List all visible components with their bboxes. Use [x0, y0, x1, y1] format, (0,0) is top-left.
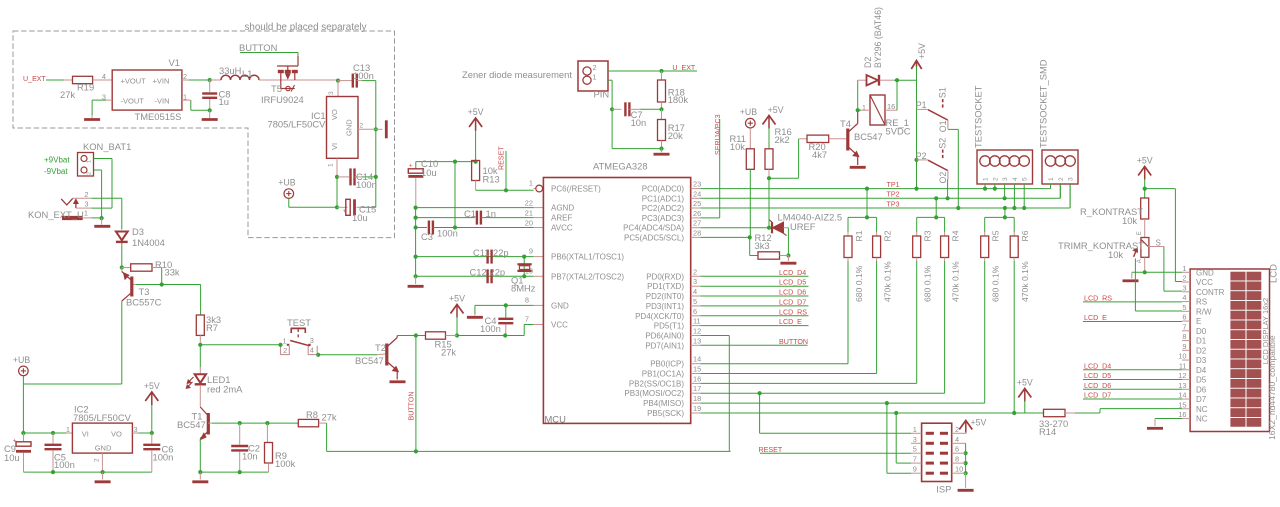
svg-text:16: 16	[887, 102, 895, 111]
svg-text:4k7: 4k7	[812, 149, 827, 160]
svg-text:PC3(ADC3): PC3(ADC3)	[642, 214, 685, 223]
svg-text:PD5(T1): PD5(T1)	[654, 322, 685, 331]
svg-text:470k 0.1%: 470k 0.1%	[951, 261, 961, 302]
svg-text:1: 1	[1048, 177, 1055, 181]
svg-text:R5: R5	[991, 230, 1001, 241]
svg-text:S2: S2	[937, 138, 947, 149]
svg-text:PB0(ICP): PB0(ICP)	[650, 360, 684, 369]
svg-text:PC0(ADC0): PC0(ADC0)	[642, 185, 685, 194]
svg-text:22: 22	[525, 199, 533, 208]
svg-text:D3: D3	[132, 226, 144, 237]
svg-text:BUTTON: BUTTON	[239, 42, 277, 53]
svg-text:R19: R19	[77, 82, 94, 93]
svg-text:V1: V1	[169, 57, 180, 68]
svg-text:27k: 27k	[60, 89, 75, 100]
svg-text:470k 0.1%: 470k 0.1%	[1020, 261, 1030, 302]
svg-text:5: 5	[1182, 303, 1186, 312]
svg-text:12: 12	[1178, 371, 1186, 380]
svg-text:S1: S1	[937, 87, 947, 98]
svg-text:15: 15	[693, 365, 701, 374]
svg-text:21: 21	[525, 209, 533, 218]
svg-text:C3: C3	[421, 231, 433, 242]
svg-text:VI: VI	[82, 430, 89, 439]
svg-text:LCD_D5: LCD_D5	[779, 279, 806, 287]
svg-text:2k2: 2k2	[775, 134, 790, 145]
svg-text:TP2: TP2	[887, 191, 900, 199]
svg-text:3k3: 3k3	[755, 240, 770, 251]
svg-text:Zener diode measurement: Zener diode measurement	[462, 69, 572, 80]
svg-text:8: 8	[525, 296, 529, 305]
svg-text:R13: R13	[483, 174, 500, 185]
svg-text:13: 13	[1178, 381, 1186, 390]
svg-text:3: 3	[328, 91, 335, 95]
svg-text:2: 2	[360, 123, 364, 130]
svg-text:R7: R7	[206, 322, 218, 333]
svg-text:3: 3	[1002, 177, 1009, 181]
svg-text:2: 2	[94, 458, 101, 462]
svg-text:10k: 10k	[1108, 249, 1123, 260]
svg-text:4: 4	[1012, 177, 1019, 181]
svg-text:ISP: ISP	[936, 484, 951, 495]
svg-text:TESTSOCKET: TESTSOCKET	[973, 85, 984, 148]
svg-text:6: 6	[955, 445, 959, 454]
svg-text:33k: 33k	[165, 267, 180, 278]
svg-text:11: 11	[693, 317, 701, 326]
svg-text:R1: R1	[854, 230, 864, 241]
svg-text:T4: T4	[840, 118, 851, 129]
svg-text:PB7(XTAL2/TOSC2): PB7(XTAL2/TOSC2)	[551, 272, 624, 281]
svg-text:RESET: RESET	[498, 146, 506, 170]
svg-text:U_EXT: U_EXT	[672, 64, 696, 72]
svg-text:RS: RS	[1196, 298, 1207, 307]
svg-text:+VIN: +VIN	[153, 77, 170, 86]
svg-text:IRFU9024: IRFU9024	[261, 94, 304, 105]
svg-text:5: 5	[913, 445, 917, 454]
svg-text:PC1(ADC1): PC1(ADC1)	[642, 194, 685, 203]
svg-text:100n: 100n	[480, 323, 501, 334]
svg-text:20: 20	[525, 219, 533, 228]
svg-text:22p: 22p	[490, 267, 506, 278]
svg-text:LCD_E: LCD_E	[1084, 314, 1107, 322]
svg-text:12: 12	[693, 327, 701, 336]
svg-text:LCD_D7: LCD_D7	[779, 298, 806, 306]
svg-text:17: 17	[693, 384, 701, 393]
svg-text:2: 2	[693, 267, 697, 276]
svg-text:1: 1	[1182, 264, 1186, 273]
svg-text:4: 4	[1182, 293, 1186, 302]
svg-text:BC547: BC547	[355, 355, 384, 366]
svg-text:+UB: +UB	[740, 107, 757, 117]
svg-text:BC547: BC547	[177, 419, 206, 430]
svg-text:100n: 100n	[437, 228, 458, 239]
svg-text:AGND: AGND	[551, 204, 574, 213]
svg-text:680 0.1%: 680 0.1%	[991, 265, 1001, 302]
svg-text:PD0(RXD): PD0(RXD)	[646, 272, 684, 281]
svg-text:470k 0.1%: 470k 0.1%	[883, 261, 893, 302]
svg-text:14: 14	[693, 355, 701, 364]
svg-text:28: 28	[693, 228, 701, 237]
svg-text:LCD_RS: LCD_RS	[779, 308, 807, 316]
svg-text:R/W: R/W	[1196, 307, 1212, 316]
svg-text:TP3: TP3	[887, 200, 900, 208]
svg-text:LCD_E: LCD_E	[779, 318, 802, 326]
svg-text:27: 27	[693, 219, 701, 228]
svg-text:LCD_D4: LCD_D4	[779, 269, 806, 277]
svg-text:+: +	[343, 209, 347, 215]
svg-text:C11: C11	[473, 247, 490, 258]
svg-text:+5V: +5V	[917, 43, 927, 59]
svg-text:10n: 10n	[242, 451, 258, 462]
svg-text:UREF: UREF	[790, 221, 816, 232]
svg-text:4: 4	[310, 346, 314, 355]
svg-text:2: 2	[1182, 274, 1186, 283]
svg-text:T5: T5	[271, 83, 282, 94]
svg-text:7: 7	[525, 315, 529, 324]
svg-text:PD4(XCK/T0): PD4(XCK/T0)	[635, 312, 684, 321]
svg-text:PC6(/RESET): PC6(/RESET)	[551, 185, 601, 194]
svg-text:2: 2	[593, 63, 597, 72]
svg-text:16X2_hd44780_compatible: 16X2_hd44780_compatible	[1267, 335, 1277, 440]
svg-text:6: 6	[693, 307, 697, 316]
svg-text:+5V: +5V	[144, 381, 160, 391]
svg-text:D7: D7	[1196, 395, 1207, 404]
svg-text:180k: 180k	[668, 94, 689, 105]
svg-text:16: 16	[693, 374, 701, 383]
svg-text:PB5(SCK): PB5(SCK)	[647, 409, 684, 418]
svg-text:9: 9	[1182, 342, 1186, 351]
svg-text:R4: R4	[951, 230, 961, 241]
svg-text:R2: R2	[883, 230, 893, 241]
svg-text:1: 1	[282, 337, 286, 346]
svg-text:+5V: +5V	[768, 105, 784, 115]
svg-text:AVCC: AVCC	[551, 224, 573, 233]
svg-text:TRIMR_KONTRAST: TRIMR_KONTRAST	[1058, 240, 1144, 251]
svg-text:9: 9	[529, 247, 533, 256]
svg-text:PD3(INT1): PD3(INT1)	[646, 302, 685, 311]
svg-text:19: 19	[693, 404, 701, 413]
svg-text:2: 2	[992, 177, 999, 181]
svg-text:1: 1	[66, 425, 70, 434]
svg-text:1u: 1u	[219, 96, 229, 107]
svg-text:LCD_D4: LCD_D4	[1084, 362, 1111, 370]
svg-text:R6: R6	[1020, 230, 1030, 241]
svg-text:KON_BAT1: KON_BAT1	[83, 141, 131, 152]
svg-text:TESTSOCKET_SMD: TESTSOCKET_SMD	[1038, 59, 1049, 148]
svg-text:CONTR: CONTR	[1196, 288, 1225, 297]
svg-text:P1: P1	[916, 100, 927, 110]
svg-text:+5V: +5V	[971, 418, 987, 428]
svg-text:100k: 100k	[275, 458, 296, 469]
svg-text:100n: 100n	[153, 452, 174, 463]
svg-text:VCC: VCC	[551, 321, 568, 330]
svg-text:D3: D3	[1196, 356, 1207, 365]
svg-text:T3: T3	[139, 286, 150, 297]
svg-text:2: 2	[84, 190, 88, 199]
svg-text:9: 9	[913, 465, 917, 474]
svg-text:VO: VO	[330, 109, 339, 120]
svg-text:27k: 27k	[322, 412, 337, 423]
svg-text:red 2mA: red 2mA	[207, 384, 243, 395]
svg-text:10: 10	[1178, 352, 1186, 361]
svg-text:20k: 20k	[668, 130, 683, 141]
svg-text:2: 2	[283, 346, 287, 355]
svg-text:10k: 10k	[730, 141, 745, 152]
svg-text:-VOUT: -VOUT	[121, 97, 145, 106]
svg-text:10u: 10u	[352, 212, 368, 223]
svg-text:-VIN: -VIN	[155, 97, 170, 106]
svg-text:VCC: VCC	[1196, 278, 1213, 287]
svg-text:PD7(AIN1): PD7(AIN1)	[645, 341, 684, 350]
svg-text:+5V: +5V	[1017, 378, 1033, 388]
svg-text:PD6(AIN0): PD6(AIN0)	[645, 332, 684, 341]
svg-text:PB6(XTAL1/TOSC1): PB6(XTAL1/TOSC1)	[551, 253, 624, 262]
svg-text:GND: GND	[551, 301, 569, 310]
svg-text:GND: GND	[345, 119, 354, 136]
svg-text:2: 2	[955, 425, 959, 434]
svg-text:D6: D6	[1196, 385, 1207, 394]
svg-text:D1: D1	[1196, 337, 1207, 346]
svg-text:GND: GND	[1196, 268, 1214, 277]
svg-text:680 0.1%: 680 0.1%	[854, 265, 864, 302]
svg-text:1: 1	[983, 177, 990, 181]
svg-text:2: 2	[1058, 177, 1065, 181]
svg-text:T2: T2	[375, 342, 386, 353]
svg-text:PIN: PIN	[594, 89, 610, 100]
svg-text:BY296 (BAT46): BY296 (BAT46)	[873, 7, 883, 68]
svg-text:-9Vbat: -9Vbat	[44, 167, 68, 176]
svg-text:100n: 100n	[353, 70, 374, 81]
svg-text:L1: L1	[242, 68, 252, 79]
svg-text:D0: D0	[1196, 327, 1207, 336]
svg-text:10u: 10u	[421, 167, 437, 178]
svg-text:22p: 22p	[493, 247, 509, 258]
svg-text:33uH: 33uH	[219, 65, 241, 76]
svg-text:GND: GND	[95, 444, 112, 453]
svg-text:3: 3	[913, 435, 917, 444]
svg-text:NC: NC	[1196, 405, 1208, 414]
svg-text:+UB: +UB	[278, 178, 295, 188]
svg-text:TP1: TP1	[887, 181, 900, 189]
svg-text:1: 1	[913, 425, 917, 434]
svg-text:8: 8	[1182, 332, 1186, 341]
svg-text:E: E	[1196, 317, 1201, 326]
svg-text:PB4(MISO): PB4(MISO)	[643, 399, 684, 408]
svg-text:KON_EXT_U: KON_EXT_U	[28, 209, 84, 220]
svg-text:BC547: BC547	[854, 131, 883, 142]
svg-text:+VOUT: +VOUT	[121, 77, 147, 86]
svg-text:D2: D2	[1196, 346, 1207, 355]
svg-text:should be placed separately: should be placed separately	[244, 22, 366, 33]
svg-text:2: 2	[87, 172, 93, 175]
svg-text:AREF: AREF	[551, 214, 572, 223]
svg-text:LCD_D5: LCD_D5	[1084, 372, 1111, 380]
svg-text:R3: R3	[923, 230, 933, 241]
svg-text:D2: D2	[863, 57, 873, 68]
svg-text:3: 3	[310, 336, 314, 345]
svg-text:7805/LF50CV: 7805/LF50CV	[268, 119, 327, 130]
svg-text:PB3(MOSI/OC2): PB3(MOSI/OC2)	[624, 389, 684, 398]
svg-text:6: 6	[1182, 313, 1186, 322]
svg-text:SERIJA/PC3: SERIJA/PC3	[714, 114, 722, 155]
svg-text:8MHz: 8MHz	[511, 283, 536, 294]
svg-text:D5: D5	[1196, 376, 1207, 385]
svg-text:15: 15	[1178, 400, 1186, 409]
svg-text:680 0.1%: 680 0.1%	[923, 265, 933, 302]
svg-text:BC557C: BC557C	[126, 297, 162, 308]
svg-text:U_EXT: U_EXT	[23, 75, 47, 83]
svg-text:BUTTON: BUTTON	[408, 391, 416, 420]
svg-text:+5V: +5V	[449, 294, 465, 304]
svg-text:100n: 100n	[356, 179, 377, 190]
svg-text:5: 5	[693, 297, 697, 306]
svg-text:VI: VI	[330, 143, 339, 150]
svg-text:1: 1	[84, 208, 88, 217]
svg-text:1N4004: 1N4004	[132, 237, 165, 248]
svg-text:1n: 1n	[486, 208, 496, 219]
svg-text:PC2(ADC2): PC2(ADC2)	[642, 204, 685, 213]
svg-text:13: 13	[693, 336, 701, 345]
svg-text:1: 1	[87, 160, 93, 163]
svg-text:3: 3	[1068, 177, 1075, 181]
svg-text:PC4(ADC4/SDA): PC4(ADC4/SDA)	[623, 224, 684, 233]
svg-text:O2: O2	[938, 172, 948, 184]
svg-text:23: 23	[693, 180, 701, 189]
svg-text:+9Vbat: +9Vbat	[44, 156, 70, 165]
svg-text:10: 10	[955, 465, 963, 474]
svg-text:7805/LF50CV: 7805/LF50CV	[73, 412, 132, 423]
svg-text:4: 4	[693, 287, 697, 296]
svg-text:MCU: MCU	[545, 414, 567, 425]
svg-text:10n: 10n	[631, 117, 647, 128]
svg-text:100n: 100n	[54, 459, 75, 470]
svg-text:C1: C1	[464, 208, 476, 219]
svg-text:+: +	[409, 164, 413, 170]
svg-text:4: 4	[102, 72, 106, 81]
svg-text:ATMEGA328: ATMEGA328	[593, 161, 648, 172]
svg-text:14: 14	[1178, 391, 1186, 400]
svg-text:TME0515S: TME0515S	[135, 111, 182, 122]
svg-text:A: A	[1137, 259, 1143, 263]
svg-text:PD1(TXD): PD1(TXD)	[647, 282, 684, 291]
svg-text:7: 7	[913, 455, 917, 464]
svg-text:3: 3	[693, 277, 697, 286]
svg-text:LCD_D6: LCD_D6	[779, 289, 806, 297]
svg-text:10u: 10u	[4, 452, 20, 463]
svg-text:10k: 10k	[1122, 215, 1137, 226]
svg-text:LCD: LCD	[1269, 264, 1280, 283]
svg-text:PC5(ADC5/SCL): PC5(ADC5/SCL)	[624, 233, 684, 242]
svg-text:7: 7	[1182, 322, 1186, 331]
svg-text:O1: O1	[938, 120, 948, 132]
svg-text:27k: 27k	[441, 347, 456, 358]
svg-text:C12: C12	[470, 267, 487, 278]
svg-text:16: 16	[1178, 410, 1186, 419]
svg-text:11: 11	[1179, 361, 1187, 370]
svg-text:5: 5	[1022, 177, 1029, 181]
svg-text:D4: D4	[1196, 366, 1207, 375]
svg-text:1: 1	[593, 73, 597, 82]
svg-text:TEST: TEST	[287, 317, 311, 328]
svg-text:1: 1	[529, 179, 533, 188]
svg-text:PB1(OC1A): PB1(OC1A)	[642, 370, 685, 379]
svg-text:4: 4	[955, 435, 959, 444]
svg-text:NC: NC	[1196, 415, 1208, 424]
svg-text:25: 25	[693, 199, 701, 208]
svg-text:E: E	[1137, 231, 1143, 235]
svg-text:VO: VO	[111, 430, 122, 439]
svg-text:3: 3	[84, 200, 88, 209]
svg-text:PB2(SS/OC1B): PB2(SS/OC1B)	[629, 379, 684, 388]
svg-text:BUTTON: BUTTON	[779, 338, 808, 346]
svg-text:3: 3	[1182, 283, 1186, 292]
svg-text:+UB: +UB	[13, 355, 30, 365]
svg-text:26: 26	[693, 209, 701, 218]
svg-text:24: 24	[693, 189, 701, 198]
svg-text:PD2(INT0): PD2(INT0)	[646, 292, 685, 301]
svg-text:R14: R14	[1039, 426, 1056, 437]
svg-text:LCD_RS: LCD_RS	[1084, 294, 1112, 302]
svg-text:LCD_D6: LCD_D6	[1084, 382, 1111, 390]
svg-text:+5V: +5V	[468, 107, 484, 117]
svg-text:R8: R8	[306, 409, 318, 420]
svg-text:8: 8	[955, 455, 959, 464]
svg-text:+5V: +5V	[1137, 156, 1153, 166]
svg-text:1: 1	[328, 163, 335, 167]
svg-text:18: 18	[693, 394, 701, 403]
svg-text:5VDC: 5VDC	[886, 126, 911, 137]
svg-text:LCD_D7: LCD_D7	[1084, 392, 1111, 400]
